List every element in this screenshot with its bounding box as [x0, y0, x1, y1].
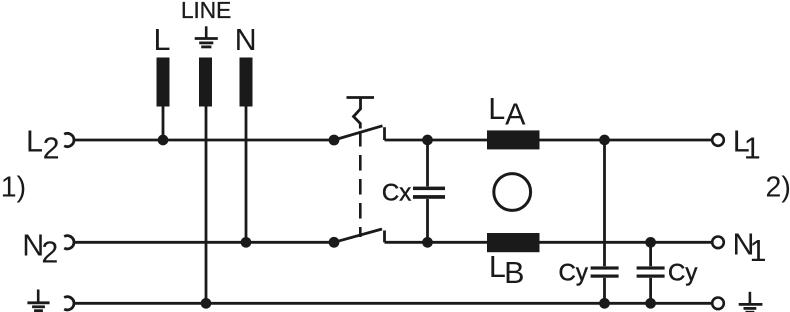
svg-text:Cy: Cy	[668, 260, 697, 287]
svg-text:L1: L1	[733, 125, 761, 166]
svg-text:N2: N2	[22, 228, 58, 269]
svg-text:LA: LA	[488, 92, 526, 132]
svg-text:L: L	[154, 23, 171, 57]
svg-text:N1: N1	[733, 228, 767, 269]
svg-text:LB: LB	[489, 250, 525, 290]
svg-text:N: N	[235, 23, 257, 57]
svg-text:2): 2)	[766, 171, 790, 203]
svg-text:1): 1)	[1, 171, 26, 203]
svg-text:Cy: Cy	[559, 260, 588, 287]
svg-text:L2: L2	[26, 125, 60, 166]
svg-text:LINE: LINE	[181, 0, 231, 23]
svg-text:Cx: Cx	[382, 179, 411, 206]
